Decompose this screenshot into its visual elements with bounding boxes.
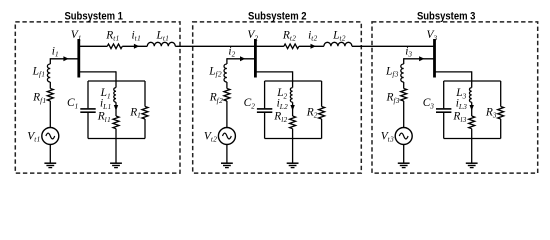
svg-text:Subsystem 2: Subsystem 2	[248, 10, 307, 22]
wire	[292, 129, 294, 139]
wire	[144, 81, 146, 107]
wire L_f1 to bus with current arrow i_1	[50, 58, 79, 60]
resistor R_l3	[469, 116, 475, 129]
node V2 bus bar	[254, 39, 257, 78]
wire L_t1 to bus V2	[175, 45, 255, 47]
wire L_t2 to bus V3	[352, 45, 435, 47]
wire	[403, 58, 405, 64]
wire bus V2 to load branch	[255, 71, 292, 73]
wire	[226, 101, 228, 128]
resistor R_f1	[47, 89, 53, 102]
inductor L_3	[469, 88, 471, 103]
wire	[49, 58, 51, 64]
wire	[321, 81, 323, 107]
inductor L_f3	[401, 64, 404, 82]
node V3 bus bar	[433, 39, 436, 78]
resistor R_l2	[290, 116, 296, 129]
ground under load of subsystem 2	[287, 162, 299, 164]
wire bus V2 to R_t2	[255, 45, 284, 47]
wire bus V1 to R_t1	[79, 45, 108, 47]
resistor R_t1	[107, 44, 122, 49]
wire R_t1 to L_t1 with current arrow i_t1	[122, 45, 147, 47]
wire R_t2 to L_t2 with current arrow i_t2	[299, 45, 324, 47]
inductor L_f1	[47, 64, 50, 82]
wire	[87, 81, 89, 108]
wire	[403, 82, 405, 89]
wire	[115, 139, 117, 164]
inductor L_f2	[224, 64, 227, 82]
wire	[403, 101, 405, 128]
wire	[471, 129, 473, 139]
svg-text:Subsystem 3: Subsystem 3	[417, 10, 476, 22]
ground under load of subsystem 3	[466, 162, 478, 164]
inductor L_t2	[324, 42, 352, 46]
capacitor C_1	[80, 108, 95, 110]
wire load box bottom	[265, 138, 322, 140]
wire L_f2 to bus with current arrow i_2	[227, 58, 256, 60]
resistor R_2	[319, 107, 325, 120]
ground under load of subsystem 1	[110, 162, 122, 164]
wire bus V1 to load branch	[79, 71, 116, 73]
AC source V_t1	[42, 128, 59, 145]
wire load box top	[265, 80, 322, 82]
svg-text:Subsystem 1: Subsystem 1	[64, 10, 123, 22]
wire	[226, 145, 228, 164]
wire	[471, 139, 473, 164]
wire load box bottom	[88, 138, 145, 140]
wire	[49, 101, 51, 128]
inductor L_t1	[147, 42, 175, 46]
wire	[226, 58, 228, 64]
ground under V_t3	[398, 162, 410, 164]
inductor L_1	[114, 88, 116, 103]
wire	[144, 119, 146, 139]
wire	[500, 119, 502, 139]
wire	[226, 82, 228, 89]
wire load box top	[88, 80, 145, 82]
wire with current arrow i_L2	[292, 102, 294, 116]
wire bus V3 to load branch	[435, 71, 472, 73]
resistor R_f3	[401, 89, 407, 102]
wire	[443, 81, 445, 108]
resistor R_3	[498, 107, 504, 120]
wire	[264, 113, 266, 139]
subsystem 2 dashed boundary	[193, 22, 362, 173]
wire	[500, 81, 502, 107]
resistor R_l1	[113, 116, 119, 129]
wire	[87, 113, 89, 139]
wire L_f3 to bus with current arrow i_3	[404, 58, 435, 60]
resistor R_f2	[224, 89, 230, 102]
resistor R_t2	[284, 44, 299, 49]
capacitor C_2	[257, 108, 272, 110]
wire load box top	[444, 80, 501, 82]
subsystem 3 dashed boundary	[372, 22, 538, 173]
AC source V_t3	[395, 128, 412, 145]
wire	[49, 82, 51, 89]
wire	[264, 81, 266, 108]
wire	[321, 119, 323, 139]
wire	[443, 113, 445, 139]
wire with current arrow i_L1	[115, 102, 117, 116]
resistor R_1	[142, 107, 148, 120]
wire	[403, 145, 405, 164]
subsystem 1 dashed boundary	[15, 22, 180, 173]
inductor L_2	[290, 88, 292, 103]
node V1 bus bar	[77, 39, 80, 78]
ground under V_t2	[221, 162, 233, 164]
ground under V_t1	[44, 162, 56, 164]
wire with current arrow i_L3	[471, 102, 473, 116]
wire	[292, 139, 294, 164]
wire	[49, 145, 51, 164]
AC source V_t2	[218, 128, 235, 145]
wire load box bottom	[444, 138, 501, 140]
capacitor C_3	[436, 108, 451, 110]
wire	[115, 129, 117, 139]
